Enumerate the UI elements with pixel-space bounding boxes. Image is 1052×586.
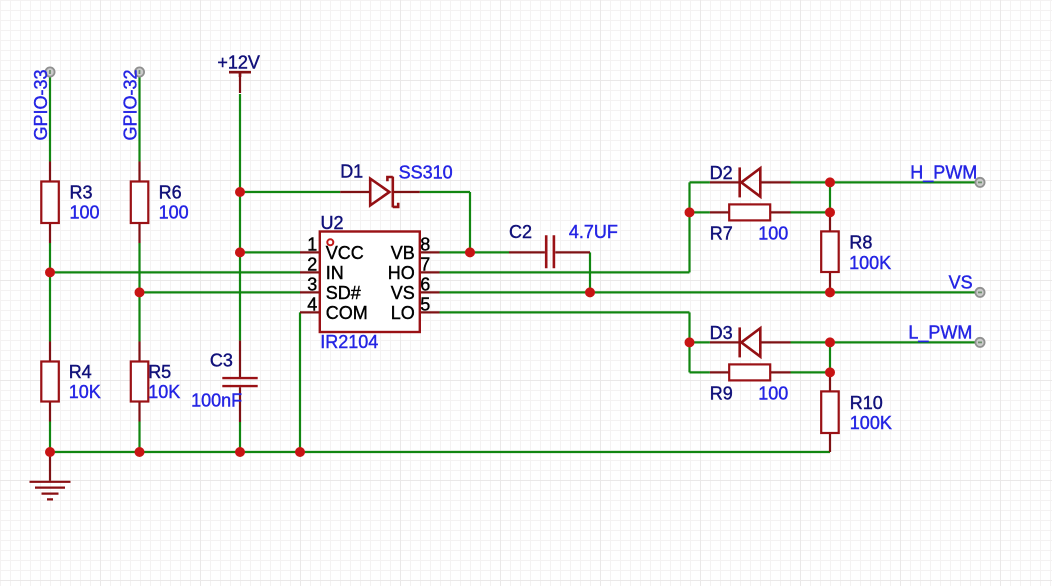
wire HO row to right corner <box>440 271 690 273</box>
svg-text:100: 100 <box>758 223 788 243</box>
svg-text:+12V: +12V <box>217 53 260 73</box>
svg-text:10K: 10K <box>148 382 180 402</box>
svg-text:U2: U2 <box>321 213 344 233</box>
wire VCC row to pin1 <box>240 251 300 253</box>
pin GPIO-32 port <box>135 67 144 76</box>
diode D2 <box>740 167 761 197</box>
svg-text:VS: VS <box>391 283 415 303</box>
wire R4 to GND rail <box>49 422 51 453</box>
node VB junction <box>465 247 475 257</box>
resistor R5 pins <box>138 342 140 422</box>
wire R7 to node H <box>791 211 831 213</box>
svg-text:D1: D1 <box>340 162 363 182</box>
svg-text:R7: R7 <box>710 223 733 243</box>
pin GPIO-33 port <box>45 67 54 76</box>
svg-text:R6: R6 <box>159 183 182 203</box>
wire D1 cathode to VB corner <box>420 192 470 252</box>
wire node L vertical <box>829 342 831 372</box>
capacitor C2 plates <box>546 235 554 268</box>
wire VS row <box>440 291 979 293</box>
svg-text:R8: R8 <box>849 233 872 253</box>
capacitor C3 plates <box>222 378 257 386</box>
svg-text:R4: R4 <box>69 362 92 382</box>
diode D3 <box>740 327 761 357</box>
diode D3 pins <box>710 341 791 343</box>
wire D2 cathode to H_PWM <box>791 181 979 183</box>
svg-text:R9: R9 <box>710 383 733 403</box>
diode D1 <box>370 177 398 208</box>
wire LO row to right corner <box>440 311 690 313</box>
wire corner down to D3 row <box>688 312 690 372</box>
svg-text:R10: R10 <box>850 393 883 413</box>
svg-text:COM: COM <box>326 303 368 323</box>
resistor R5 body <box>131 362 149 402</box>
node SD junction <box>135 287 145 297</box>
wire +12V vertical to C3 <box>239 94 241 341</box>
svg-text:IN: IN <box>326 263 344 283</box>
svg-text:7: 7 <box>420 255 430 275</box>
svg-text:100: 100 <box>758 383 788 403</box>
svg-text:LO: LO <box>391 303 415 323</box>
pin H_PWM port <box>975 178 984 187</box>
ground symbol <box>30 482 71 500</box>
svg-text:IR2104: IR2104 <box>320 332 378 352</box>
wire R9 to node L <box>791 371 831 373</box>
node R7/R8 junction <box>825 207 835 217</box>
resistor R3 pins <box>49 162 51 244</box>
svg-text:10K: 10K <box>69 382 101 402</box>
svg-text:R5: R5 <box>148 362 171 382</box>
node D3 left junction <box>685 337 695 347</box>
node R7 left junction <box>685 207 695 217</box>
power symbol +12V bar <box>229 72 251 77</box>
wire node IN to R4 <box>49 272 51 341</box>
svg-text:GPIO-32: GPIO-32 <box>120 69 140 140</box>
svg-text:2: 2 <box>307 255 317 275</box>
wire COM down to GND rail <box>299 312 301 452</box>
node GND rail junction 2 <box>135 447 145 457</box>
svg-text:H_PWM: H_PWM <box>910 162 977 183</box>
svg-text:8: 8 <box>420 235 430 255</box>
svg-text:VCC: VCC <box>326 243 364 263</box>
node GND rail junction 1 <box>45 447 55 457</box>
svg-text:VS: VS <box>949 273 973 293</box>
power +12V stub <box>239 72 241 93</box>
wire R7 row left <box>690 211 710 213</box>
wire node SD to R5 <box>138 292 140 341</box>
resistor R7 body <box>729 204 770 220</box>
wire R6 to node SD <box>138 243 140 292</box>
resistor R9 pins <box>710 371 791 373</box>
resistor R3 body <box>41 182 59 224</box>
wire GPIO-33 vertical <box>49 74 51 162</box>
svg-text:R3: R3 <box>70 183 93 203</box>
diode D1 pins <box>340 191 420 193</box>
svg-text:100K: 100K <box>849 253 891 273</box>
svg-text:5: 5 <box>420 295 430 315</box>
svg-text:100nF: 100nF <box>191 390 242 410</box>
resistor R10 pins <box>829 372 831 452</box>
svg-text:SD#: SD# <box>326 283 361 303</box>
resistor R4 body <box>41 362 59 402</box>
resistor R6 body <box>131 182 149 224</box>
node R8/VS junction <box>825 287 835 297</box>
svg-text:100: 100 <box>159 203 189 223</box>
svg-text:C3: C3 <box>210 351 233 371</box>
wire node SD row to pin3 <box>140 291 301 293</box>
node H_PWM junction <box>825 177 835 187</box>
svg-text:100: 100 <box>70 203 100 223</box>
U2 right pin lines 8-5 <box>420 252 440 312</box>
wire node IN row to pin2 <box>50 271 300 273</box>
diode D2 pins <box>710 181 791 183</box>
svg-text:1: 1 <box>307 235 317 255</box>
wire R3 to node IN <box>49 243 51 272</box>
node VCC junction <box>235 247 245 257</box>
wire D3 row left <box>690 341 710 343</box>
resistor R4 pins <box>49 342 51 422</box>
U2 pin-1 indicator circle <box>327 239 333 245</box>
svg-text:6: 6 <box>420 275 430 295</box>
svg-text:D3: D3 <box>710 323 733 343</box>
capacitor C2 pins <box>509 251 590 253</box>
svg-text:VB: VB <box>391 243 415 263</box>
wire R5 to GND rail <box>138 422 140 453</box>
resistor R9 body <box>729 364 770 380</box>
node GND rail junction 3 <box>235 447 245 457</box>
node C2/VS junction <box>585 287 595 297</box>
wire GND rail <box>50 451 830 453</box>
wire D2 row left <box>690 181 710 183</box>
IC U2 IR2104 body <box>320 232 420 333</box>
svg-text:4.7UF: 4.7UF <box>569 222 618 242</box>
svg-text:4: 4 <box>307 295 317 315</box>
wire +12V to D1 anode <box>240 191 340 193</box>
svg-text:C2: C2 <box>509 222 532 242</box>
wire GPIO-32 vertical <box>138 74 140 162</box>
ground stub <box>49 452 51 481</box>
node L_PWM junction <box>825 337 835 347</box>
svg-text:HO: HO <box>388 263 415 283</box>
svg-text:3: 3 <box>307 275 317 295</box>
wire VB to C2 <box>440 251 510 253</box>
wire node H vertical <box>829 182 831 212</box>
pin VS port <box>975 288 984 297</box>
U2 left pin lines 1-4 <box>300 252 320 312</box>
resistor R6 pins <box>138 162 140 244</box>
node R9/R10 junction <box>825 367 835 377</box>
svg-text:GPIO-33: GPIO-33 <box>31 69 51 140</box>
wire D3 to L_PWM <box>791 341 979 343</box>
node GND rail junction 4 <box>295 447 305 457</box>
resistor R7 pins <box>710 211 791 213</box>
resistor R8 pins <box>829 212 831 292</box>
svg-text:100K: 100K <box>850 413 892 433</box>
node IN junction <box>45 267 55 277</box>
node +12V/D1 junction <box>235 187 245 197</box>
wire C2 right corner down to VS <box>589 252 591 292</box>
resistor R8 body <box>821 231 839 272</box>
wire corner up to D2 row <box>688 182 690 272</box>
pin L_PWM port <box>975 338 984 347</box>
capacitor C3 pins <box>239 341 241 422</box>
resistor R10 body <box>821 391 839 433</box>
wire C3 to GND rail <box>239 422 241 452</box>
svg-text:L_PWM: L_PWM <box>908 322 972 343</box>
svg-text:SS310: SS310 <box>399 162 453 182</box>
svg-text:D2: D2 <box>710 163 733 183</box>
wire R9 row left <box>690 371 710 373</box>
